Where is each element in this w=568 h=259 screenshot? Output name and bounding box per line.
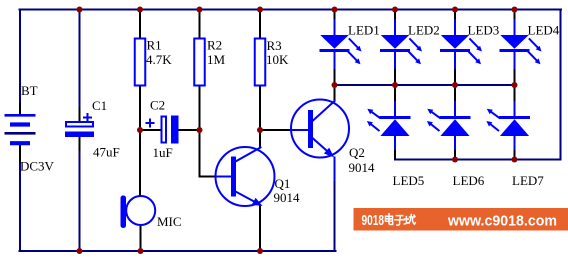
LED5: [367, 109, 409, 136]
wire battery bottom lead: [19, 146, 21, 164]
wire LED3 column: [454, 11, 456, 85]
svg-text:R2: R2: [207, 38, 222, 53]
LED2: [382, 36, 423, 65]
svg-text:LED6: LED6: [453, 173, 485, 188]
wire Q2 emitter down: [334, 158, 336, 183]
wire LED4 column: [514, 11, 516, 85]
wire MIC to bottom rail: [140, 225, 142, 251]
svg-text:www.c9018.com: www.c9018.com: [447, 212, 557, 229]
wire C1 column lower: [79, 137, 81, 152]
wire third rail (lower LED anode bus): [395, 159, 561, 161]
watermark banner: [354, 208, 568, 231]
wire LED7 column: [514, 86, 516, 159]
wire battery top lead: [19, 104, 21, 114]
resistor R1: [135, 39, 146, 86]
svg-text:LED2: LED2: [408, 23, 440, 38]
wire R3 bottom lead: [259, 86, 261, 131]
wire C1 column upper: [79, 10, 81, 109]
wire LED6 column: [454, 86, 456, 159]
node Q1 collector junction: [257, 127, 263, 133]
svg-text:1uF: 1uF: [153, 145, 173, 160]
LED3: [442, 36, 483, 65]
wire top rail: [20, 9, 562, 11]
LED1: [321, 36, 362, 65]
wire R2 bottom lead: [199, 86, 201, 131]
LED6: [427, 109, 469, 136]
node bottom rail at Q1 emitter: [257, 248, 263, 254]
wire C2 right: [179, 129, 200, 131]
node top rail at LED4: [512, 7, 518, 13]
svg-text:Q1: Q1: [275, 176, 291, 191]
node top rail at R3: [257, 7, 263, 13]
wire R1 top lead: [139, 10, 141, 39]
node second rail at LED4: [512, 82, 518, 88]
wire C2 left: [140, 129, 161, 131]
wire R1 bottom to MIC: [139, 86, 141, 197]
svg-text:9018: 9018: [362, 212, 385, 229]
node top rail at R2: [197, 7, 203, 13]
wire right edge: [560, 10, 562, 160]
node second rail at LED3: [452, 82, 458, 88]
node top rail at C1: [77, 7, 83, 13]
node C2 left junction: [137, 127, 143, 133]
wire left edge (battery column): [19, 10, 21, 252]
wire LED5 column: [394, 86, 396, 159]
wire LED1 column: [334, 11, 336, 85]
node top rail at LED1: [332, 7, 338, 13]
wire R2 top lead: [199, 10, 201, 39]
svg-text:9014: 9014: [274, 190, 301, 205]
svg-text:BT: BT: [21, 83, 38, 98]
svg-text:1M: 1M: [207, 52, 226, 67]
svg-text:LED5: LED5: [393, 173, 425, 188]
svg-text:10K: 10K: [266, 52, 289, 67]
node C2 right junction: [197, 127, 203, 133]
wire R2 junction down to Q1 base: [200, 130, 216, 177]
node third rail at LED6: [452, 157, 458, 163]
wire LED2 column: [394, 11, 396, 85]
node top rail at LED3: [452, 7, 458, 13]
transistor Q1: [216, 147, 275, 206]
svg-text:C1: C1: [92, 98, 107, 113]
resistor R3: [255, 39, 266, 86]
node second rail at LED1: [332, 82, 338, 88]
node top rail at R1: [137, 7, 143, 13]
svg-text:R1: R1: [147, 38, 162, 53]
svg-text:DC3V: DC3V: [20, 159, 55, 174]
transistor Q2: [291, 100, 349, 158]
capacitor C2: [147, 116, 179, 144]
battery BT: [5, 115, 36, 143]
node bottom rail at MIC: [138, 248, 144, 254]
node second rail at LED2: [392, 82, 398, 88]
LED7: [486, 109, 528, 136]
microphone MIC: [121, 196, 156, 229]
svg-text:C2: C2: [150, 98, 165, 113]
wire Q1 emitter to bottom rail: [259, 207, 261, 252]
LED4: [501, 36, 542, 65]
svg-text:9014: 9014: [349, 160, 376, 175]
svg-text:4.7K: 4.7K: [146, 52, 172, 67]
svg-text:Q2: Q2: [349, 145, 365, 160]
wire second rail (LED cathode bus): [335, 84, 515, 86]
capacitor C1: [65, 114, 94, 137]
svg-text:LED7: LED7: [512, 173, 544, 188]
svg-text:LED4: LED4: [528, 23, 560, 38]
node third rail at LED7: [512, 157, 518, 163]
node bottom rail at C1: [77, 248, 83, 254]
wire R3 junction to Q2 base: [260, 129, 291, 131]
wire R3 top lead: [259, 10, 261, 39]
wire Q2 collector up to LED bus: [334, 85, 336, 101]
resistor R2: [194, 39, 205, 86]
svg-text:47uF: 47uF: [93, 145, 120, 160]
wire Q1 collector: [259, 130, 261, 147]
svg-text:LED1: LED1: [348, 23, 380, 38]
node top rail at LED2: [392, 7, 398, 13]
svg-text:R3: R3: [267, 38, 282, 53]
svg-text:LED3: LED3: [468, 23, 500, 38]
wire bottom rail: [20, 250, 336, 252]
svg-text:MIC: MIC: [157, 214, 182, 229]
